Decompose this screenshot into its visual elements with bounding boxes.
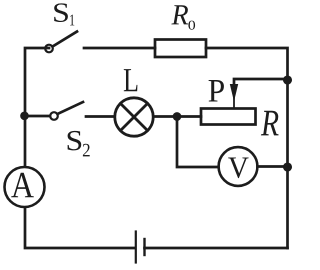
ammeter A — [5, 167, 45, 207]
slider P arrowhead — [230, 84, 238, 102]
slider P wire — [234, 79, 288, 86]
label V (voltmeter letter) — [228, 158, 248, 179]
label S2 'S' — [68, 131, 82, 150]
wire (voltmeter to right wire) — [258, 165, 288, 168]
wire left vertical top (corner to ammeter) — [25, 48, 49, 167]
wire (S2 to lamp) — [86, 115, 114, 118]
wire left vertical bottom (ammeter to bottom corner) — [25, 208, 135, 249]
label P (slider) — [209, 80, 224, 101]
label R (rheostat) — [261, 111, 279, 136]
voltmeter V — [219, 147, 258, 186]
label L (lamp) — [124, 69, 138, 91]
node junction voltmeter-right — [284, 163, 292, 171]
wire (junction down to voltmeter row) — [177, 117, 219, 168]
resistor R0 — [155, 40, 206, 58]
label S1 subscript 1 — [70, 15, 74, 26]
wire bottom right (battery to right corner) — [145, 247, 288, 250]
wire (junction to S2) — [25, 115, 50, 118]
wire top right (R0 to right corner) — [206, 48, 288, 248]
label R0 subscript 0 — [188, 21, 195, 30]
wire top (S1 to R0) — [84, 47, 155, 50]
node junction lamp-right — [173, 113, 180, 120]
wire (lamp to rheostat) — [154, 115, 202, 118]
lamp L — [115, 98, 153, 136]
switch S2 — [50, 102, 83, 120]
label S1 'S' — [54, 3, 68, 22]
battery short plate — [143, 239, 145, 255]
label R0 'R' — [171, 5, 188, 24]
rheostat R body — [201, 109, 256, 125]
battery long plate — [135, 232, 137, 263]
label S2 subscript 2 — [83, 144, 90, 157]
node junction left — [21, 112, 28, 119]
label A (ammeter letter) — [11, 173, 34, 197]
node junction top-right — [284, 76, 292, 84]
switch S1 — [45, 32, 77, 53]
slider P stem — [233, 98, 235, 108]
